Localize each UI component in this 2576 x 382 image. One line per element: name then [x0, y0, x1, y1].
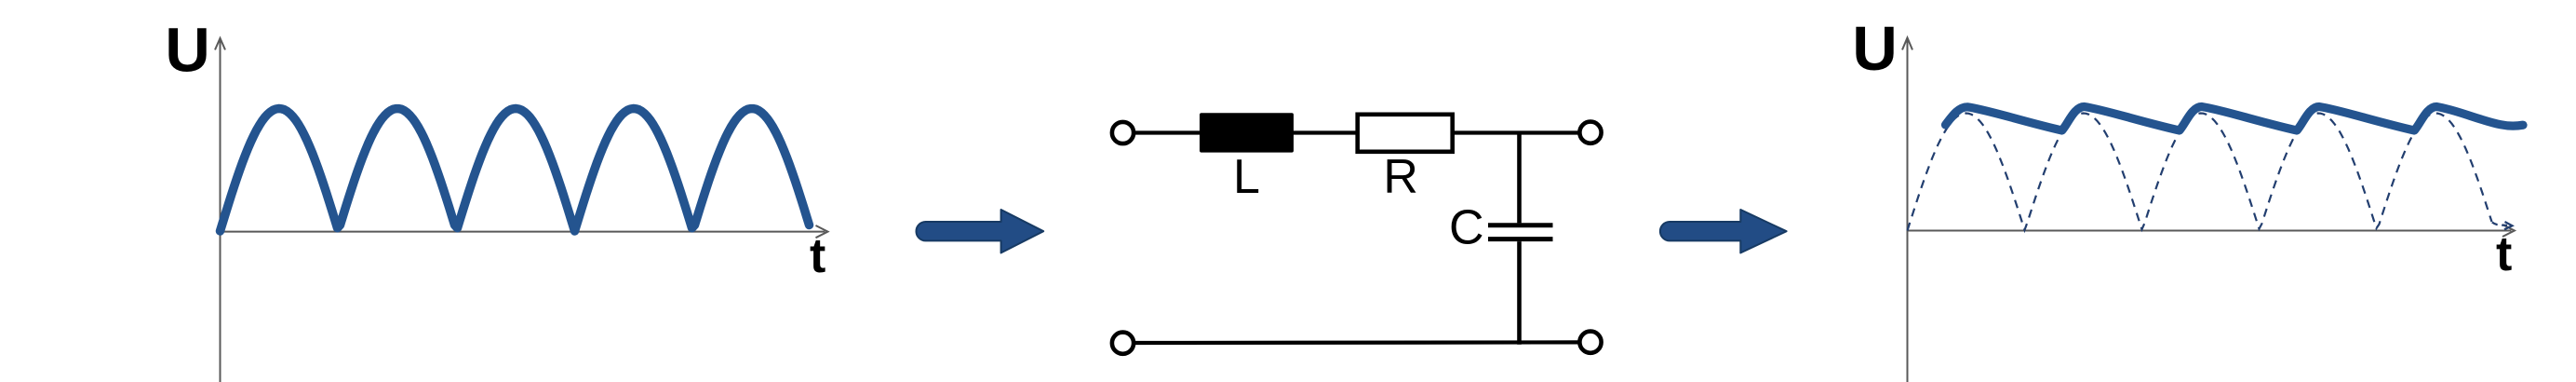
- capacitor C bottom plate: [1488, 237, 1553, 241]
- dashed rectified sine waveform (reference): [1908, 114, 2492, 231]
- dashed end arrow marker: [2492, 222, 2513, 229]
- smoothed output waveform: [1946, 107, 2524, 131]
- svg-text:t: t: [2496, 227, 2512, 281]
- svg-text:L: L: [1233, 150, 1260, 204]
- right graph vertical axis: [1902, 38, 1912, 382]
- resistor R: [1358, 115, 1453, 152]
- svg-text:t: t: [810, 229, 825, 283]
- arrow symbol 1 (input to filter): [917, 210, 1044, 252]
- wire: resistor to output terminal (top rail): [1453, 130, 1579, 134]
- capacitor C top plate: [1488, 223, 1553, 227]
- left graph horizontal axis (t axis): [221, 225, 828, 238]
- wire: bottom rail: [1134, 340, 1579, 345]
- svg-text:R: R: [1383, 150, 1418, 204]
- arrow symbol 2 (filter to output): [1660, 210, 1787, 252]
- rectified sine waveform (input): [221, 109, 810, 232]
- terminal (input top-left): [1112, 122, 1134, 143]
- terminal (bottom-right): [1579, 332, 1601, 353]
- terminal (bottom-left): [1112, 333, 1134, 354]
- svg-text:U: U: [1852, 14, 1897, 84]
- wire: capacitor to bottom rail: [1517, 241, 1522, 345]
- svg-text:U: U: [165, 16, 209, 86]
- terminal (output top-right): [1579, 122, 1601, 143]
- node: junction top rail to capacitor branch: [1517, 133, 1522, 224]
- wire: inductor to resistor: [1294, 130, 1359, 134]
- wire: input terminal to inductor: [1134, 130, 1201, 134]
- svg-text:C: C: [1449, 201, 1484, 255]
- right graph horizontal axis (t axis): [1908, 225, 2515, 237]
- left graph vertical axis: [215, 38, 225, 382]
- inductor L: [1200, 113, 1294, 152]
